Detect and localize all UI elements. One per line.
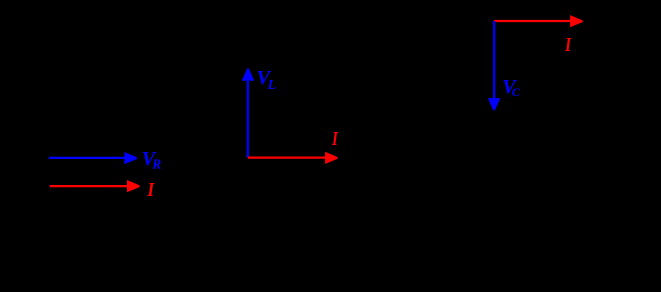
label V_C (502, 76, 521, 99)
svg-text:I: I (331, 127, 339, 150)
svg-text:I: I (147, 179, 155, 202)
label I (inductor) (331, 127, 339, 150)
svg-text:I: I (564, 33, 572, 56)
svg-text:R: R (151, 157, 161, 172)
label V_L (257, 67, 276, 92)
phasor arrow I (capacitor current) (494, 15, 583, 27)
label I (resistor) (147, 179, 155, 202)
phasor arrow I (inductor current) (248, 152, 338, 164)
svg-text:L: L (267, 77, 276, 92)
label V_R (142, 148, 162, 172)
phasor arrow V_R (resistor voltage) (49, 152, 137, 164)
phasor arrow I (resistor current) (50, 180, 140, 192)
phasor arrow V_C (capacitor voltage) (488, 21, 500, 111)
label I (capacitor) (564, 33, 572, 56)
svg-text:C: C (512, 85, 521, 99)
phasor arrow V_L (inductor voltage) (242, 68, 254, 158)
